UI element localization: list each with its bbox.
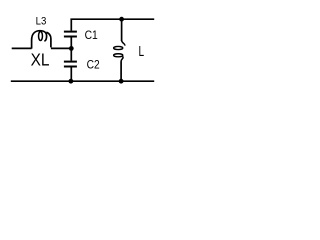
wire bottom rail: [11, 80, 154, 82]
wire cap mid upper: [70, 38, 72, 49]
wire cap mid lower: [70, 48, 72, 60]
wire cap stem bottom: [70, 68, 72, 82]
node mid junction: [69, 46, 74, 51]
svg-text:L: L: [139, 43, 145, 60]
capacitor C2: [64, 61, 77, 63]
wire mid-left input: [12, 47, 32, 49]
node top junction: [119, 17, 124, 22]
wire L bottom stem: [120, 62, 122, 82]
wire mid-right to node: [51, 47, 71, 49]
svg-text:XL: XL: [31, 49, 50, 69]
svg-text:L3: L3: [36, 15, 47, 27]
node bottom-right junction: [119, 79, 124, 84]
svg-text:C1: C1: [85, 28, 98, 42]
inductor L: [122, 40, 125, 45]
wire top rail: [70, 18, 154, 20]
inductor L3: [32, 31, 47, 49]
wire cap stem top: [70, 19, 72, 31]
node bottom-left junction: [69, 79, 74, 84]
svg-text:C2: C2: [87, 58, 100, 72]
wire L top stem: [121, 19, 123, 41]
capacitor C1: [64, 31, 77, 33]
